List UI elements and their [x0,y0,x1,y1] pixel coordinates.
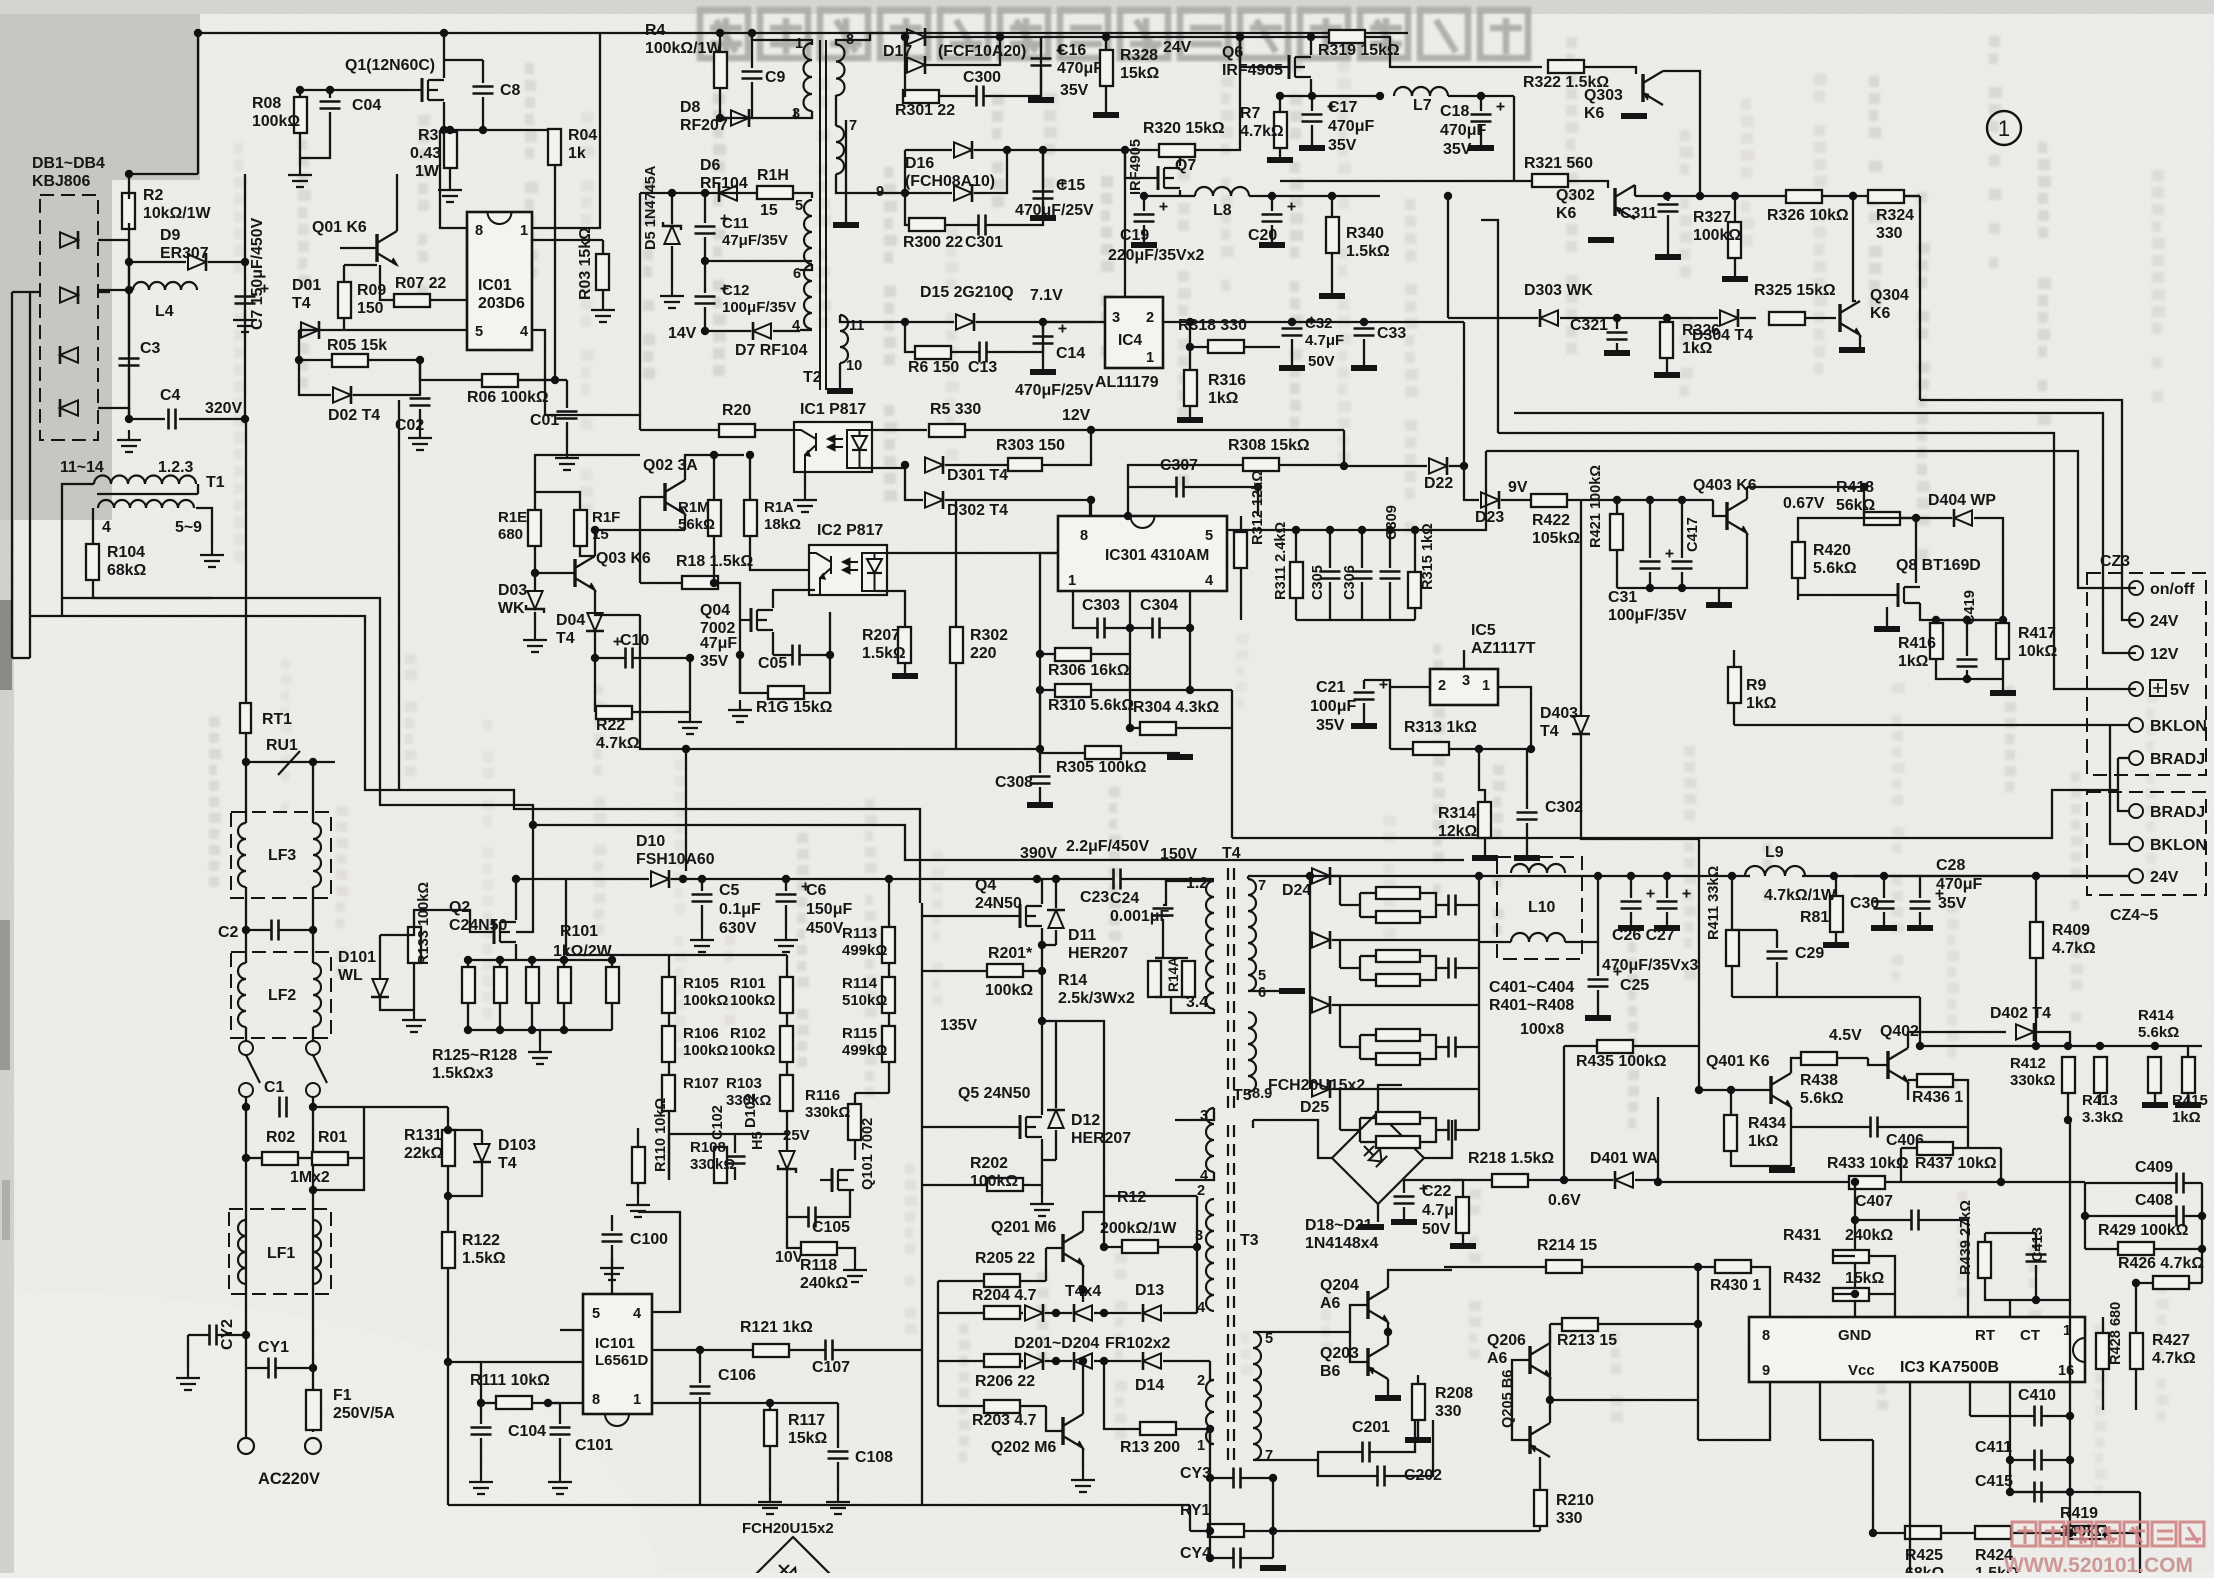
svg-text:D04: D04 [556,612,585,629]
wire [800,264,812,270]
wire [1617,587,1719,589]
ground [117,430,141,452]
capacitor C201 [1363,1442,1370,1463]
wire [2035,1265,2037,1300]
wire [1370,1420,1415,1452]
wire [669,1133,787,1135]
svg-text:LF1: LF1 [267,1245,295,1262]
junction [295,356,424,364]
svg-text:C100: C100 [630,1231,668,1248]
junction [1186,343,1194,351]
svg-text:R08: R08 [252,95,281,112]
wire [925,37,1000,65]
inductor L10 b [1511,933,1565,942]
wire [1667,215,1669,257]
ground bar [1468,145,1494,151]
MOSFET Q4 [1008,904,1042,928]
wire [685,455,744,480]
svg-text:R105: R105 [683,975,719,992]
wire [1295,530,1297,562]
svg-text:330kΩ: 330kΩ [2010,1072,2055,1089]
wire [1798,594,1884,596]
svg-text:Q203: Q203 [1320,1345,1359,1362]
wire [772,632,774,655]
wire [922,915,1008,917]
svg-text:T5: T5 [1233,1087,1252,1104]
IC101 notch [605,1414,629,1426]
wire [752,40,812,45]
ground bar [892,673,918,679]
svg-text:T3: T3 [1240,1232,1259,1249]
wire [1189,1504,1191,1506]
junction [1292,526,1419,534]
capacitor C202 [1378,1466,1385,1487]
wire [1359,1118,1361,1142]
svg-text:C108: C108 [855,1449,893,1466]
wire [1985,1232,2036,1234]
svg-text:R311 2.4kΩ: R311 2.4kΩ [1273,521,1289,600]
svg-text:HER207: HER207 [1071,1130,1131,1147]
svg-text:R434: R434 [1748,1115,1786,1132]
connector pin BRADJ [2129,751,2143,765]
wire 320V rail down [245,419,247,703]
wire [560,1329,583,1331]
wire [2068,1120,2070,1300]
transistor Q202 [1063,1414,1083,1448]
svg-text:R310 5.6kΩ: R310 5.6kΩ [1048,697,1134,714]
svg-text:R4: R4 [645,22,665,39]
capacitor CY3 [1234,1468,1241,1489]
inductor LF1 b [313,1220,321,1284]
diode D01 [301,321,319,339]
inductor T2 winding 7-9 [836,126,844,174]
wire [2139,1533,2141,1573]
wire D403 to Q401 [1581,795,1699,1046]
svg-text:8: 8 [1080,528,1088,544]
svg-text:499kΩ: 499kΩ [842,1042,887,1059]
wire [1630,912,1632,928]
svg-text:BRADJ: BRADJ [2150,804,2205,821]
svg-text:8: 8 [592,1392,600,1408]
wire [1083,1212,1104,1231]
wire [1479,749,1485,802]
svg-text:Q03 K6: Q03 K6 [596,550,651,567]
wire [1041,1139,1043,1160]
svg-text:Q1(12N60C): Q1(12N60C) [345,57,435,74]
MOSFET Q04 [739,608,773,632]
svg-text:R5 330: R5 330 [930,401,981,418]
wire [481,1130,483,1143]
svg-text:R1E: R1E [498,509,527,526]
wire [1175,1172,1214,1180]
wire [1837,1057,1868,1059]
wire [937,1281,939,1406]
svg-text:R14A: R14A [1166,957,1181,992]
resistor R433 [1849,1176,1885,1189]
resistor R203 [984,1400,1020,1413]
svg-text:R301 22: R301 22 [895,102,955,119]
wire [668,955,670,977]
svg-text:R302: R302 [970,627,1008,644]
IC IC5 [1430,669,1498,705]
svg-text:R340: R340 [1346,225,1384,242]
junction [2081,1212,2206,1287]
wire [1833,1255,1855,1257]
svg-text:C21: C21 [1316,679,1345,696]
svg-text:R409: R409 [2052,922,2090,939]
junction [1102,33,1110,41]
svg-text:IC1 P817: IC1 P817 [800,401,866,418]
resistor R311 [1290,562,1303,598]
svg-text:R1G 15kΩ: R1G 15kΩ [756,699,833,716]
wire [1452,1179,1463,1181]
wire [751,33,753,68]
wire [1462,1180,1464,1197]
diode D23 [1481,491,1499,509]
wire [534,573,536,590]
wire [1512,1360,1530,1440]
ground [1071,1470,1095,1492]
wire [1464,494,1479,500]
junction [1087,426,1095,434]
resistor R115 [882,1026,895,1062]
wire [705,330,751,332]
resistor R306 [1055,648,1091,661]
junction [1613,314,1671,322]
svg-text:IC5: IC5 [1471,622,1496,639]
svg-text:Q302: Q302 [1556,187,1595,204]
capacitor C4 [169,409,176,430]
svg-text:100kΩ: 100kΩ [970,1173,1018,1190]
svg-text:D02 T4: D02 T4 [328,407,380,424]
svg-text:470μF: 470μF [1328,118,1374,135]
junction [1663,192,1857,200]
svg-text:C321: C321 [1570,317,1608,334]
wire [1359,1035,1361,1059]
wire [480,1403,482,1424]
wire [1360,1034,1376,1036]
wire [1041,928,1043,945]
wire [535,455,640,492]
wire [1248,990,1280,992]
capacitor C25 [1588,980,1609,987]
diode D9 [188,253,206,271]
wire [800,612,830,655]
wire [922,970,987,972]
transistor Q206 [1530,1343,1550,1377]
svg-text:330kΩ: 330kΩ [805,1104,850,1121]
wire [836,174,905,193]
svg-text:R324: R324 [1876,207,1914,224]
svg-text:D102: D102 [743,1093,759,1128]
junction [901,461,909,469]
wire [1331,253,1333,296]
wire [1210,1477,1233,1479]
wire [2136,1282,2153,1284]
wire [2099,1093,2101,1105]
svg-text:330: 330 [1876,225,1903,242]
svg-text:D402 T4: D402 T4 [1990,1005,2051,1022]
svg-text:C22: C22 [1422,1183,1451,1200]
resistor R431 [1833,1250,1869,1263]
wire [1091,628,1130,654]
svg-text:R106: R106 [683,1025,719,1042]
svg-text:R201*: R201* [988,945,1033,962]
svg-text:C04: C04 [352,97,381,114]
resistor R439 [1978,1242,1991,1278]
svg-text:K6: K6 [1870,305,1890,322]
capacitor C9 [742,72,763,79]
wire [1873,1532,1905,1534]
wire [128,174,130,199]
wire T2 core [825,40,827,390]
svg-text:C401~C404: C401~C404 [1489,979,1574,996]
diode DB2 [60,286,78,304]
wire [1253,1331,1318,1333]
wire [1240,568,1242,620]
resistor R03 [596,254,609,290]
wire [1350,1305,1368,1362]
wire [1309,876,1311,1089]
svg-text:2: 2 [1146,310,1154,326]
svg-text:3: 3 [1200,1108,1208,1124]
svg-text:100kΩ: 100kΩ [252,113,300,130]
capacitor C304 [1153,618,1160,639]
wire [246,1157,262,1159]
wire [128,290,130,355]
wire [1045,1360,1072,1362]
junction [1916,1042,2159,1050]
junction [1087,496,1095,504]
wire [1339,940,1341,968]
wire [2187,1093,2189,1105]
wire [905,321,954,323]
inductor T3 lower [1206,1380,1214,1444]
wire [1597,876,1599,942]
resistor bank [558,967,571,1003]
IC3 notch [2073,1338,2085,1362]
svg-text:D8: D8 [680,99,700,116]
wire [1378,1085,1402,1112]
wire [1196,1247,1198,1313]
svg-text:7.1V: 7.1V [1030,287,1063,304]
diode D7 [753,322,771,340]
wire [534,546,536,573]
resistor R416 [1930,623,1943,659]
wire [532,193,640,415]
wire [443,102,445,130]
svg-text:R108: R108 [690,1139,726,1156]
capacitor C409 [2177,1173,2184,1194]
capacitor C02 [410,399,431,406]
capacitor C6 [776,895,797,902]
wire [245,1097,247,1439]
junction [242,1331,250,1339]
capacitor C101 [550,1428,571,1435]
wire [1456,1129,1479,1131]
svg-text:8: 8 [475,223,483,239]
svg-text:R20: R20 [722,402,751,419]
filter LF3 box [231,812,331,898]
wire [2035,958,2037,1005]
wire [720,117,729,119]
junction [512,875,520,883]
wire [1042,944,1056,946]
svg-text:R437 10kΩ: R437 10kΩ [1915,1155,1997,1172]
wire [1318,1460,1377,1476]
resistor R315 [1408,572,1421,608]
wire [1985,1278,2036,1300]
inductor L7 [1394,87,1448,96]
capacitor C8 [473,87,494,94]
svg-text:100kΩ: 100kΩ [683,1042,728,1059]
resistor R403 [1376,950,1420,962]
svg-text:4.7kΩ/1W: 4.7kΩ/1W [1764,887,1836,904]
resistor R415 [2182,1057,2195,1093]
wire [1616,500,1618,514]
ground [843,1260,867,1282]
wire [1462,1233,1464,1246]
MOSFET Q2 [482,920,516,944]
wire [835,120,837,126]
svg-text:D01: D01 [292,277,321,294]
wire [1444,1266,1546,1268]
capacitor C15 [1033,192,1054,199]
svg-text:R01: R01 [318,1129,347,1146]
wire [1663,71,1700,196]
junction [1052,1357,1108,1365]
capacitor C311 [1658,205,1679,212]
resistor R103 [780,1075,793,1111]
resistor R113 [882,927,895,963]
ground [793,490,817,512]
diode D13 [1143,1304,1161,1322]
wire [2002,679,2004,693]
wire [1154,960,1156,962]
junction [1079,1357,1087,1365]
wire [2084,1183,2086,1249]
svg-text:3: 3 [1112,310,1120,326]
diode D15 [956,313,974,331]
wire [1291,339,1293,368]
svg-text:R1F: R1F [592,509,620,526]
wire [1909,1382,1911,1573]
junction [531,526,599,577]
svg-text:1.5kΩ: 1.5kΩ [862,645,906,662]
wire BKLON left [1734,724,2110,726]
wire [945,224,978,226]
wire [836,33,870,45]
resistor R413 [2094,1057,2107,1093]
svg-text:Q7: Q7 [1175,157,1196,174]
wire [1103,1361,1105,1406]
inductor L9 [1745,866,1805,876]
wire [353,360,420,395]
wire [1176,1428,1210,1430]
wire [833,1349,921,1351]
wire [447,1107,449,1130]
resistor R106 [662,1026,675,1062]
terminal [305,1438,321,1454]
wire [1041,945,1043,971]
capacitor C04 [320,102,341,109]
wire [905,150,952,193]
wire [1649,572,1651,588]
svg-text:R414: R414 [2138,1007,2175,1024]
svg-text:T2: T2 [803,369,822,386]
svg-text:A6: A6 [1320,1295,1340,1312]
capacitor C12 [695,297,716,304]
svg-text:470μF: 470μF [1057,60,1103,77]
resistor R133 [408,927,421,963]
resistor R218 [1492,1174,1528,1187]
junction [1033,875,1060,883]
wire [449,168,451,180]
wire [1055,1021,1057,1108]
svg-text:R04: R04 [568,127,597,144]
wire [1179,190,1181,196]
capacitor C28 [1910,902,1931,909]
resistor R303 [1008,458,1042,471]
svg-text:15kΩ: 15kΩ [1845,1270,1885,1287]
resistor R202 [987,1178,1023,1191]
wire [2042,1415,2070,1417]
svg-text:C05: C05 [758,655,787,672]
wire [467,165,555,380]
svg-text:5.6kΩ: 5.6kΩ [2138,1024,2179,1041]
svg-text:3.3kΩ: 3.3kΩ [2082,1109,2123,1126]
svg-text:35V: 35V [1328,137,1357,154]
wire [1479,941,1511,943]
ground bar [1405,1437,1431,1443]
wire [1041,36,1106,38]
svg-text:1: 1 [795,36,803,52]
svg-text:D6: D6 [700,157,720,174]
capacitor C05 [793,645,800,666]
svg-text:D03: D03 [498,582,527,599]
inductor T1 primary [94,476,196,485]
svg-text:1.2.3: 1.2.3 [158,459,194,476]
svg-text:1: 1 [1482,678,1490,694]
svg-text:680: 680 [498,526,523,543]
wire [1697,1267,1699,1440]
wire [1820,1439,1873,1441]
svg-text:CZ3: CZ3 [2100,553,2130,570]
wire [1329,582,1331,620]
svg-text:C104: C104 [508,1423,546,1440]
optocoupler IC2 [809,545,887,595]
resistor R05 [332,354,368,367]
wire [1155,957,1188,959]
wire right vertical [1919,196,1921,400]
wire [787,1217,801,1248]
wire [1279,148,1281,160]
wire [1919,997,1921,1046]
transistor Q401 [1771,1073,1791,1107]
resistor RY1 [1208,1524,1244,1537]
wire [1241,1557,1273,1559]
resistor R301 [903,90,939,103]
diode D202 [1074,1352,1092,1370]
svg-text:L9: L9 [1765,844,1784,861]
resistor R12 [1122,1240,1158,1253]
ground [233,310,257,332]
wire [1597,942,1599,976]
inductor T2 winding 8 [836,45,845,96]
wire long vertical [921,903,923,1505]
svg-text:2: 2 [1197,1373,1205,1389]
wire [1332,1088,1479,1090]
